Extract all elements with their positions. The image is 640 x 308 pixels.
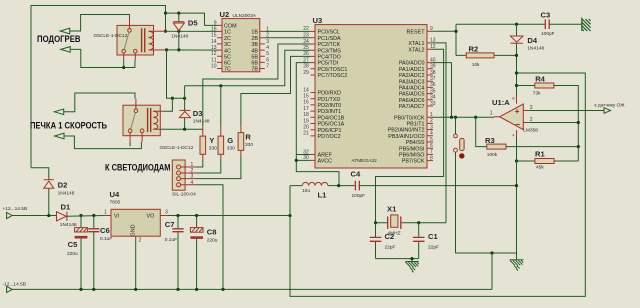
wire relay1 coil-bottom to ULN 4C (167, 49, 218, 51)
node divider tap (577, 145, 580, 148)
switch SW (button to gnd) (454, 117, 517, 253)
svg-text:29: 29 (303, 70, 309, 76)
svg-text:PD4/OC1B: PD4/OC1B (318, 115, 345, 121)
wire RESET net (433, 24, 545, 55)
wire PC4 to resistor R (241, 56, 311, 126)
svg-text:LM358: LM358 (523, 128, 538, 134)
wire relay1 NO pin drop (123, 61, 125, 68)
svg-text:D4: D4 (527, 36, 537, 45)
svg-text:C4: C4 (351, 170, 361, 179)
svg-text:15: 15 (211, 33, 217, 39)
terminal arrow ПОДОГРЕВ upper (60, 15, 129, 34)
inductor L1 10u (290, 182, 355, 199)
wire op-amp output row PB0 (433, 116, 494, 118)
svg-text:18: 18 (303, 112, 309, 118)
svg-text:34: 34 (430, 95, 436, 101)
svg-text:330: 330 (227, 145, 235, 151)
svg-text:R: R (245, 132, 251, 141)
node coil-top (164, 30, 167, 33)
node switch tap (454, 116, 457, 119)
svg-text:G: G (227, 136, 233, 145)
svg-text:PD1/TXD: PD1/TXD (318, 97, 341, 103)
resistor G 330 (218, 126, 235, 159)
wire op-amp pin2 feedback (530, 122, 579, 124)
svg-text:3B: 3B (251, 42, 258, 48)
terminal +12...14.5V input (7, 212, 57, 218)
svg-text:PB3/AIN1/OC0: PB3/AIN1/OC0 (388, 134, 424, 140)
svg-text:35: 35 (430, 88, 436, 94)
svg-text:VO: VO (147, 214, 155, 220)
svg-text:D3: D3 (193, 109, 203, 118)
svg-text:6C: 6C (224, 61, 231, 67)
svg-text:C1: C1 (428, 232, 438, 241)
svg-text:3: 3 (191, 174, 194, 180)
svg-text:PB6/MISO: PB6/MISO (399, 153, 424, 159)
node gnd rail junctions (79, 288, 82, 291)
wire crystal gnd row (376, 259, 419, 262)
svg-text:1N4148: 1N4148 (60, 222, 77, 228)
svg-text:-12...14.5В: -12...14.5В (3, 281, 26, 287)
svg-text:220u: 220u (207, 238, 218, 244)
svg-text:1: 1 (430, 112, 433, 118)
wire U4 gnd drop (135, 241, 137, 290)
svg-text:7: 7 (266, 64, 269, 70)
svg-text:30: 30 (303, 155, 309, 161)
svg-text:7: 7 (430, 149, 433, 155)
svg-text:37: 37 (430, 76, 436, 82)
svg-text:U4: U4 (110, 190, 120, 199)
svg-text:4: 4 (191, 180, 194, 186)
svg-text:C2: C2 (385, 232, 395, 241)
node crystal left (374, 221, 377, 224)
svg-text:PB1/T1: PB1/T1 (407, 122, 425, 128)
wire PC2 to resistor Y (203, 44, 311, 126)
svg-text:220u: 220u (67, 251, 78, 257)
node L1/C4/AVCC (337, 184, 340, 187)
svg-text:8: 8 (430, 155, 433, 161)
svg-text:1C: 1C (224, 30, 231, 36)
svg-text:C3: C3 (541, 10, 551, 19)
terminal -12...14.5V input (7, 286, 492, 292)
svg-text:4: 4 (266, 45, 269, 51)
svg-text:10k: 10k (472, 62, 480, 68)
wire op-amp pin3 to terminal (530, 110, 604, 112)
svg-text:GND: GND (131, 224, 137, 236)
relay RL1 G5CLE-1-DC12 (94, 18, 167, 61)
svg-text:4B: 4B (251, 48, 258, 54)
regulator U4 7805 (104, 190, 168, 244)
capacitor C6 0.1uF (88, 216, 112, 290)
svg-text:73k: 73k (533, 91, 541, 97)
svg-text:D2: D2 (58, 180, 68, 189)
svg-text:9: 9 (430, 26, 433, 32)
svg-text:XTAL1: XTAL1 (408, 41, 424, 47)
svg-text:COM: COM (224, 24, 237, 30)
node D5 cathode tap (177, 12, 180, 15)
svg-text:U2: U2 (220, 10, 230, 19)
svg-text:5C: 5C (224, 54, 231, 60)
svg-text:VI: VI (114, 214, 119, 220)
resistor R4 73k (517, 74, 579, 161)
node D3 top (183, 97, 186, 100)
wire XTAL2 run (376, 49, 444, 223)
wire relay2 feed drop (167, 50, 185, 98)
svg-text:AVCC: AVCC (318, 159, 333, 165)
svg-text:XTAL2: XTAL2 (408, 47, 424, 53)
diode D5 1N4148 (171, 13, 198, 50)
svg-text:22pF: 22pF (428, 245, 439, 251)
wire G to connector pin2 (196, 159, 221, 173)
svg-text:PA3/ADC3: PA3/ADC3 (399, 79, 425, 85)
svg-text:6: 6 (430, 143, 433, 149)
svg-text:+12...14.5В: +12...14.5В (3, 206, 28, 212)
diode D1 1N4148 (57, 203, 104, 228)
svg-text:4: 4 (430, 131, 433, 137)
svg-text:ULN2003A: ULN2003A (233, 13, 257, 19)
wire COM feed (166, 13, 218, 25)
svg-text:PC0/SCL: PC0/SCL (318, 30, 340, 36)
wire ULN 2B to PC1 (265, 37, 311, 39)
node C7 top (176, 214, 179, 217)
svg-text:R1: R1 (535, 150, 545, 159)
connector J1 SIL-100-04 (172, 160, 196, 198)
svg-text:14: 14 (303, 87, 309, 93)
node D5 anode on 4C row (177, 48, 180, 51)
svg-text:R3: R3 (485, 136, 495, 145)
svg-text:19: 19 (303, 118, 309, 124)
svg-text:11: 11 (211, 57, 216, 63)
node D3 anode (183, 128, 186, 131)
svg-text:PC1/SDA: PC1/SDA (318, 36, 341, 42)
node RESET junction (454, 30, 457, 33)
node relay2 coil-top tap (171, 97, 174, 100)
svg-text:−: − (515, 119, 520, 129)
svg-text:5B: 5B (251, 54, 258, 60)
svg-text:39: 39 (430, 64, 436, 70)
capacitor C8 220u (190, 216, 217, 290)
svg-text:PC6/TOSC1: PC6/TOSC1 (318, 67, 348, 73)
svg-text:36: 36 (430, 82, 436, 88)
node D1/D2 junction (47, 214, 50, 217)
svg-text:1B: 1B (251, 30, 258, 36)
svg-text:2B: 2B (251, 36, 258, 42)
svg-text:PA1/ADC1: PA1/ADC1 (399, 67, 425, 73)
svg-text:20: 20 (303, 125, 309, 131)
svg-text:PC3/TMS: PC3/TMS (318, 48, 342, 54)
svg-text:PA6/ADC6: PA6/ADC6 (399, 98, 425, 104)
IC U2 ULN2003A (211, 10, 269, 73)
svg-text:PA7/ADC7: PA7/ADC7 (399, 104, 425, 110)
svg-text:5: 5 (430, 137, 433, 143)
svg-text:к датчику ОЖ: к датчику ОЖ (595, 102, 626, 108)
svg-text:C8: C8 (207, 228, 217, 237)
wire PC5/AREF/AVCC drop (296, 63, 339, 186)
svg-text:45k: 45k (536, 165, 544, 171)
capacitor C2 22pF (370, 223, 396, 259)
svg-text:14: 14 (211, 39, 217, 45)
wire relay1 coil-top to ULN 1C (166, 13, 218, 31)
svg-text:7805: 7805 (110, 200, 121, 206)
relay RL2 G5CLE-1-DC12 (123, 99, 194, 152)
ground symbol top right (582, 18, 591, 31)
svg-text:100pF: 100pF (352, 193, 366, 199)
svg-text:PD5/OC1A: PD5/OC1A (318, 122, 345, 128)
wire gnd drop to rail (491, 253, 493, 289)
svg-text:PA5/ADC5: PA5/ADC5 (399, 92, 425, 98)
node crystal gnd (410, 257, 413, 260)
IC U3 ATMEGA32 (303, 16, 436, 168)
wire +5V rail (168, 215, 290, 217)
node D5 anode crossing (177, 30, 180, 33)
svg-text:6: 6 (266, 57, 269, 63)
svg-text:ПЕЧКА 1 СКОРОСТЬ: ПЕЧКА 1 СКОРОСТЬ (30, 120, 107, 130)
svg-text:27: 27 (303, 57, 309, 63)
svg-text:Y: Y (209, 136, 214, 145)
svg-text:15: 15 (303, 94, 309, 100)
node gnd drop (490, 251, 493, 254)
node relay1 NO junction (122, 66, 125, 69)
wire +12V top-left rail (31, 6, 166, 168)
svg-text:7B: 7B (251, 67, 258, 73)
svg-text:16: 16 (303, 100, 309, 106)
svg-text:PB5/MOSI: PB5/MOSI (399, 146, 424, 152)
svg-text:25: 25 (303, 45, 309, 51)
svg-text:1N4148: 1N4148 (193, 119, 210, 125)
svg-text:100pF: 100pF (541, 31, 555, 37)
svg-text:X1: X1 (387, 205, 397, 214)
node G resistor tap (219, 84, 222, 87)
svg-text:13: 13 (211, 45, 217, 51)
diode D2 1N4148 (31, 168, 75, 216)
svg-text:17: 17 (303, 106, 309, 112)
node AVCC junction (295, 159, 298, 162)
svg-text:3: 3 (165, 209, 168, 215)
svg-text:PC7/TOSC2: PC7/TOSC2 (318, 73, 348, 79)
crystal X1 4MHZ (376, 205, 447, 237)
node R3 tap (474, 116, 477, 119)
capacitor C7 0.1uF (165, 216, 184, 290)
svg-text:26: 26 (303, 51, 309, 57)
svg-text:2C: 2C (224, 36, 231, 42)
svg-text:ПОДОГРЕВ: ПОДОГРЕВ (37, 34, 81, 44)
svg-text:C7: C7 (165, 220, 175, 229)
svg-text:SIL-100-04: SIL-100-04 (172, 192, 196, 198)
svg-text:PD7/OC2: PD7/OC2 (318, 134, 341, 140)
svg-text:К СВЕТОДИОДАМ: К СВЕТОДИОДАМ (105, 163, 171, 173)
node +5V distribution (288, 214, 291, 217)
svg-text:10: 10 (211, 64, 217, 70)
capacitor C4 100pF (351, 170, 517, 200)
node R1 left on pin4 drop (515, 159, 518, 162)
svg-text:1: 1 (104, 209, 107, 215)
wire G resistor drop (220, 86, 222, 126)
capacitor C5 220u (67, 216, 87, 290)
diode D3 1N4148 (179, 86, 210, 129)
svg-text:0.1uF: 0.1uF (100, 236, 112, 242)
svg-text:PC5/TDI: PC5/TDI (318, 61, 339, 67)
svg-text:3: 3 (266, 39, 269, 45)
wire XTAL1 run (433, 43, 446, 223)
svg-text:R2: R2 (469, 45, 479, 54)
svg-text:3C: 3C (224, 42, 231, 48)
diode D4 1N4148 (510, 24, 544, 95)
svg-text:U3: U3 (313, 16, 323, 25)
svg-text:38: 38 (430, 70, 436, 76)
svg-text:2: 2 (430, 118, 433, 124)
ground symbol right (510, 253, 524, 271)
svg-text:22pF: 22pF (385, 245, 396, 251)
resistor Y 330 (200, 126, 217, 159)
svg-text:5: 5 (266, 51, 269, 57)
node coil-bottom branch (165, 48, 168, 51)
svg-text:PC4/TDO: PC4/TDO (318, 55, 341, 61)
svg-text:2: 2 (139, 238, 142, 244)
resistor R3 100k (476, 117, 579, 158)
terminal arrow ПЕЧКА upper (54, 93, 135, 115)
svg-text:PB2/AIN0/INT2: PB2/AIN0/INT2 (388, 128, 425, 134)
node PA0 on output row (450, 116, 453, 119)
svg-text:C5: C5 (68, 240, 78, 249)
wire connector pin4 to ground rail (196, 185, 223, 290)
node +5 riser tap (515, 71, 518, 74)
wire R to connector pin3 (196, 155, 241, 179)
wire relay2 coil-bottom row (160, 128, 203, 130)
svg-text:R4: R4 (535, 74, 545, 83)
svg-text:G5CLE-1-DC12: G5CLE-1-DC12 (94, 33, 128, 39)
wire relay2 NO stub (129, 141, 131, 146)
node top-left rail junction (164, 12, 167, 15)
resistor R2 10k (456, 45, 517, 68)
terminal arrow ПОДОГРЕВ lower (61, 47, 135, 68)
svg-text:PD2/INT0: PD2/INT0 (318, 103, 342, 109)
resistor R1 45k (517, 150, 579, 171)
node C4 row end (515, 184, 518, 187)
svg-text:7C: 7C (224, 67, 231, 73)
svg-text:PC2/TCK: PC2/TCK (318, 42, 341, 48)
wire PC3 to D3 node (185, 50, 311, 86)
svg-text:RESET: RESET (407, 29, 426, 35)
svg-text:1: 1 (490, 111, 493, 117)
svg-text:C6: C6 (100, 226, 110, 235)
svg-text:G5CLE-1-DC12: G5CLE-1-DC12 (160, 145, 194, 151)
svg-text:1N4148: 1N4148 (527, 46, 544, 52)
svg-text:PB4/SS: PB4/SS (406, 140, 425, 146)
wire ULN 1B to PC0 (265, 30, 311, 32)
svg-text:24: 24 (303, 39, 309, 45)
svg-text:D1: D1 (61, 203, 71, 212)
svg-text:PB0/T0/XCK: PB0/T0/XCK (394, 115, 425, 121)
svg-text:U1:A: U1:A (492, 98, 510, 107)
svg-text:L1: L1 (318, 190, 328, 199)
svg-text:PA0/ADC0: PA0/ADC0 (399, 61, 425, 67)
ground symbol under crystal (405, 262, 419, 273)
capacitor C1 22pF (413, 223, 439, 259)
svg-text:330: 330 (209, 145, 217, 151)
svg-text:3: 3 (430, 124, 433, 130)
terminal к датчику ОЖ (604, 108, 611, 114)
svg-text:1N4148: 1N4148 (58, 191, 75, 197)
svg-text:23: 23 (303, 33, 309, 39)
wire +5V to L1 and bottom loop (290, 73, 585, 296)
resistor R 330 (238, 126, 253, 155)
node C5 top (79, 214, 82, 217)
svg-text:330: 330 (245, 142, 253, 148)
svg-text:PD6/ICP1: PD6/ICP1 (318, 128, 342, 134)
svg-text:D5: D5 (188, 18, 198, 27)
node C8 top (195, 214, 198, 217)
node D4 top (515, 23, 518, 26)
svg-text:33: 33 (430, 101, 436, 107)
svg-text:PA4/ADC4: PA4/ADC4 (399, 86, 425, 92)
svg-text:22: 22 (303, 26, 309, 32)
wire PA0 tap (433, 63, 452, 118)
svg-text:21: 21 (303, 131, 309, 137)
svg-text:12: 12 (211, 51, 217, 57)
capacitor C3 100pF (541, 10, 582, 37)
svg-text:16: 16 (211, 26, 217, 32)
svg-text:PD3/INT1: PD3/INT1 (318, 109, 342, 115)
svg-text:100k: 100k (487, 152, 498, 158)
terminal arrow ПЕЧКА lower (55, 133, 142, 148)
svg-text:ATMEGA32: ATMEGA32 (352, 158, 378, 164)
svg-text:28: 28 (303, 64, 309, 70)
wire op-amp pin4 drop to gnd (516, 137, 518, 253)
svg-text:PD0/RXD: PD0/RXD (318, 91, 341, 97)
svg-text:PA2/ADC2: PA2/ADC2 (399, 73, 425, 79)
svg-text:PB7/SCK: PB7/SCK (402, 159, 425, 165)
svg-text:1N4148: 1N4148 (171, 33, 188, 39)
wire relay2 coil-top link (162, 98, 172, 111)
node R2 right (515, 54, 518, 57)
svg-text:+: + (515, 107, 520, 116)
svg-text:4C: 4C (224, 48, 231, 54)
node R4 left (515, 84, 518, 87)
node pin2/R4 (577, 121, 580, 124)
node crystal right (417, 221, 420, 224)
svg-text:10u: 10u (302, 188, 310, 194)
wire Y to connector pin1 (196, 159, 203, 167)
svg-text:0.1uF: 0.1uF (165, 237, 177, 243)
op-amp U1:A LM358 (490, 95, 539, 137)
svg-text:6B: 6B (251, 61, 258, 67)
node C6 top (92, 214, 95, 217)
